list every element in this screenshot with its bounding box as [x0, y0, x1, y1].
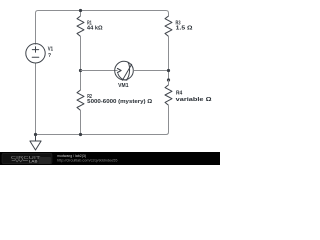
voltage source V1: [26, 44, 45, 63]
resistor R4: [165, 85, 172, 105]
ground: [30, 135, 41, 151]
svg-text:?: ?: [48, 53, 51, 59]
svg-text:VM1: VM1: [118, 83, 129, 89]
node junction dot top rail at R1: [79, 9, 82, 12]
resistor R2: [77, 90, 84, 110]
footer watermark bar: [0, 152, 220, 165]
resistor R1: [77, 16, 84, 36]
wire top rail from V1 up and across to R3: [36, 11, 169, 45]
svg-text:5000-6000 (mystery) Ω: 5000-6000 (mystery) Ω: [87, 99, 152, 105]
CircuitLab logo badge: [39, 157, 52, 164]
resistor R3: [165, 16, 172, 36]
node junction dot bottom at ground: [34, 133, 37, 136]
svg-text:LAB: LAB: [29, 159, 38, 164]
node junction dot mid-right: [167, 69, 170, 72]
wire R2 bottom lead: [80, 111, 82, 135]
svg-text:R4: R4: [176, 90, 183, 96]
node junction dot bottom at R2: [79, 133, 82, 136]
wire R3 bottom lead down to R4: [168, 37, 170, 81]
node junction dot mid-left: [79, 69, 82, 72]
node junction dot R4 top: [167, 78, 170, 81]
svg-text:44 kΩ: 44 kΩ: [87, 25, 103, 31]
wire middle to voltmeter: [81, 70, 118, 72]
wire R1 top lead: [80, 11, 82, 17]
voltmeter VM1: [115, 61, 134, 80]
CircuitLab logo resistor squiggle: [12, 160, 28, 162]
wire R4 top lead: [168, 80, 170, 85]
svg-text:1.5 Ω: 1.5 Ω: [176, 25, 193, 31]
svg-text:http://circuitlab.com/c2qv9ddn: http://circuitlab.com/c2qv9ddndee55: [57, 158, 118, 163]
CircuitLab logo box: [2, 153, 52, 164]
svg-text:variable Ω: variable Ω: [176, 97, 212, 103]
wire R1 bottom to R2 top: [80, 37, 82, 91]
wire bottom rail from R4 down and across to V1: [36, 63, 169, 135]
svg-text:V1: V1: [48, 47, 53, 53]
wire voltmeter to right rail: [133, 70, 168, 72]
